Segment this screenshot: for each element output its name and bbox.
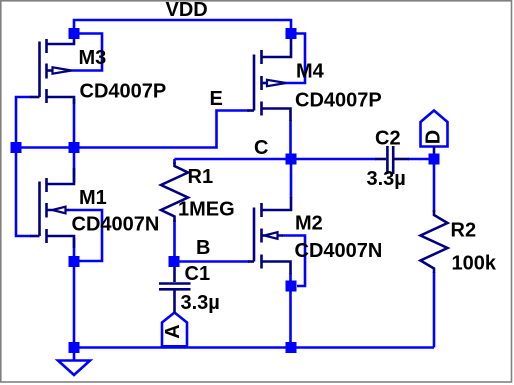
wire M3 source to node E: [73, 99, 76, 148]
svg-text:CD4007P: CD4007P: [80, 81, 167, 103]
svg-text:M1: M1: [79, 187, 107, 209]
svg-text:R1: R1: [188, 166, 214, 188]
wire node E row: [16, 111, 249, 148]
wire R2 top lead: [433, 159, 436, 212]
wire VDD rail: [74, 20, 291, 36]
wire ground stem: [73, 348, 76, 361]
capacitor C1: [159, 264, 191, 313]
svg-text:3.3µ: 3.3µ: [367, 168, 406, 190]
wire node C row left: [175, 158, 376, 161]
svg-text:3.3µ: 3.3µ: [181, 292, 220, 314]
junction node C: [286, 154, 297, 165]
wire M3 bulk to VDD: [71, 34, 102, 71]
svg-text:C2: C2: [375, 128, 401, 150]
transistor M2: [248, 197, 291, 274]
junction M2 bulk-source: [286, 281, 297, 292]
svg-text:R2: R2: [451, 220, 477, 242]
svg-text:VDD: VDD: [166, 0, 208, 21]
wire node C row right: [408, 158, 434, 161]
junction M3 source M1 drain: [69, 142, 80, 153]
capacitor C2: [375, 146, 409, 174]
resistor R1: [161, 162, 188, 222]
svg-text:1MEG: 1MEG: [178, 199, 235, 221]
junction ground left: [69, 342, 80, 353]
port D stem: [433, 147, 436, 156]
wire M2 drain to node C: [290, 159, 293, 198]
svg-text:A: A: [162, 324, 184, 338]
wire gate bus M3-M1: [16, 97, 31, 236]
junction gate bus / node E: [11, 142, 22, 153]
svg-text:CD4007P: CD4007P: [295, 90, 382, 112]
wire M2 bulk to source: [282, 236, 305, 287]
port A: [162, 313, 187, 347]
svg-text:100k: 100k: [452, 253, 497, 275]
svg-text:M2: M2: [295, 213, 323, 235]
transistor M1: [30, 168, 74, 248]
junction M1 bulk-source: [69, 256, 80, 267]
svg-text:C: C: [254, 137, 268, 159]
wire node B row: [174, 260, 249, 263]
svg-text:E: E: [210, 88, 223, 110]
svg-text:CD4007N: CD4007N: [295, 240, 383, 262]
wire M2 source to ground: [289, 273, 292, 348]
wire M4 bulk to VDD: [285, 34, 305, 84]
wire R1 top lead: [173, 159, 176, 164]
resistor R2: [421, 210, 448, 273]
junction ground M2: [286, 342, 297, 353]
wire R1 bottom lead to node B: [173, 220, 176, 261]
wire D node column: [433, 154, 436, 165]
wire ground rail: [74, 346, 434, 349]
junction VDD-M3: [69, 28, 80, 39]
svg-text:C1: C1: [185, 263, 211, 285]
svg-text:M4: M4: [296, 61, 325, 83]
wire M1 drain from node E: [73, 148, 76, 183]
svg-text:CD4007N: CD4007N: [72, 214, 160, 236]
svg-text:B: B: [196, 237, 210, 259]
transistor M4: [247, 36, 291, 121]
port D: [421, 111, 448, 147]
junction VDD-M4: [286, 28, 297, 39]
junction node B: [169, 256, 180, 267]
wire M1 source to ground: [73, 238, 76, 348]
svg-text:D: D: [423, 130, 445, 144]
transistor M3: [30, 36, 74, 104]
ground: [58, 361, 90, 376]
wire R2 bottom to ground rail: [433, 272, 436, 348]
svg-text:M3: M3: [79, 47, 107, 69]
junction node D: [429, 154, 440, 165]
wire M4 source to node C: [289, 120, 292, 159]
wire M1 bulk to source: [68, 210, 102, 261]
